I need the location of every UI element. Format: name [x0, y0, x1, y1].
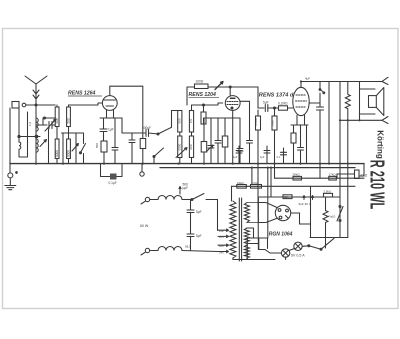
svg-text:0,1μF: 0,1μF — [109, 181, 117, 185]
svg-text:17kΩ: 17kΩ — [329, 173, 337, 177]
svg-text:500: 500 — [67, 118, 71, 124]
svg-text:1μF: 1μF — [108, 128, 114, 132]
svg-text:100Ω: 100Ω — [196, 80, 204, 84]
svg-text:1,0: 1,0 — [28, 121, 32, 126]
svg-text:R 210 WL: R 210 WL — [366, 160, 388, 210]
svg-text:Fa10: Fa10 — [329, 215, 336, 219]
svg-text:24kΩ: 24kΩ — [237, 181, 244, 185]
svg-text:0000: 0000 — [55, 150, 59, 157]
svg-text:28kΩ: 28kΩ — [293, 173, 301, 177]
svg-text:17kΩ: 17kΩ — [252, 181, 259, 185]
svg-text:62k: 62k — [284, 195, 289, 199]
svg-text:0,5MΩ: 0,5MΩ — [254, 118, 258, 126]
svg-text:000: 000 — [189, 144, 193, 149]
svg-text:RENS 1264: RENS 1264 — [68, 91, 96, 97]
svg-text:0,5: 0,5 — [189, 119, 193, 124]
svg-text:500: 500 — [95, 143, 99, 148]
svg-text:300μF: 300μF — [142, 126, 151, 130]
svg-text:2,5kΩ: 2,5kΩ — [324, 190, 331, 194]
svg-text:Körting: Körting — [375, 130, 384, 159]
svg-text:56,5: 56,5 — [185, 245, 191, 249]
svg-text:0,1: 0,1 — [277, 156, 281, 159]
svg-text:60 W: 60 W — [140, 224, 149, 228]
svg-text:500: 500 — [55, 118, 59, 124]
svg-text:125: 125 — [219, 235, 224, 239]
svg-text:500: 500 — [177, 118, 181, 123]
svg-text:5μF: 5μF — [196, 210, 202, 214]
svg-text:240: 240 — [218, 250, 224, 254]
svg-text:0000: 0000 — [177, 143, 181, 150]
svg-text:5μF: 5μF — [196, 234, 202, 238]
svg-text:μμF: μμF — [183, 186, 189, 190]
svg-text:5V 0,5 A: 5V 0,5 A — [291, 254, 305, 258]
svg-text:1μF: 1μF — [260, 156, 265, 159]
svg-text:6μF 30 V: 6μF 30 V — [299, 202, 311, 206]
svg-text:RENS 1374 d: RENS 1374 d — [259, 93, 294, 99]
svg-text:RGN 1064: RGN 1064 — [269, 232, 293, 238]
svg-text:220: 220 — [218, 244, 224, 248]
svg-text:110: 110 — [219, 229, 224, 233]
svg-text:1μF: 1μF — [233, 156, 238, 159]
svg-text:0000: 0000 — [67, 150, 71, 157]
svg-text:5μF: 5μF — [263, 100, 269, 104]
svg-text:1MΩ: 1MΩ — [271, 120, 275, 126]
svg-text:4μF: 4μF — [305, 77, 310, 81]
svg-text:0,1MΩ: 0,1MΩ — [278, 101, 288, 105]
